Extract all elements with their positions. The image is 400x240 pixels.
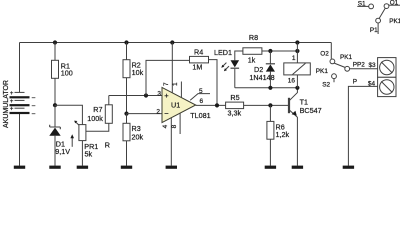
contact O2	[320, 51, 335, 64]
pin 1 stub	[172, 82, 181, 98]
contact arm O2-PP2	[334, 63, 345, 67]
svg-text:R: R	[105, 140, 110, 149]
contact S1	[357, 1, 373, 9]
contact PP2	[345, 62, 378, 72]
contact S2	[322, 74, 336, 89]
svg-text:–: –	[32, 111, 36, 117]
svg-text:PK1: PK1	[340, 54, 353, 61]
ground R3	[121, 166, 132, 169]
node R8/D2	[268, 49, 272, 53]
svg-text:1N4148: 1N4148	[249, 73, 274, 82]
node D2/collector net	[268, 86, 272, 90]
svg-text:100k: 100k	[87, 114, 103, 123]
wire pin3 net	[109, 95, 162, 97]
wire R8 to relay column	[262, 50, 298, 52]
svg-text:R5: R5	[230, 93, 239, 102]
svg-text:R7: R7	[93, 105, 102, 114]
resistor R4 1M	[190, 48, 209, 72]
svg-text:3: 3	[157, 90, 161, 97]
ground P	[343, 166, 354, 169]
pin 5 stub	[190, 88, 210, 100]
wire P to terminal and ground	[348, 79, 377, 166]
annotation arrow R up	[70, 134, 110, 149]
contact O1	[384, 0, 400, 9]
wire top rail	[20, 42, 332, 44]
pin 7 supply	[163, 43, 172, 93]
svg-text:+: +	[10, 99, 14, 105]
ground D1	[49, 166, 60, 169]
svg-text:+: +	[10, 107, 14, 113]
node rail/R2	[124, 40, 128, 44]
svg-text:1k: 1k	[248, 55, 256, 64]
svg-text:PK1: PK1	[316, 68, 329, 75]
ground battery	[14, 166, 25, 169]
node R2/R3/pin2	[124, 112, 128, 116]
svg-text:$3: $3	[369, 62, 377, 69]
resistor R3 20k	[123, 114, 143, 166]
svg-text:16: 16	[288, 78, 296, 85]
node base/R6	[268, 103, 272, 107]
svg-text:+: +	[10, 91, 14, 97]
svg-text:7: 7	[163, 82, 170, 86]
svg-text:$4: $4	[368, 81, 376, 88]
resistor R5 3,3k	[226, 93, 244, 117]
contact P1 with arm	[370, 8, 385, 34]
svg-text:R4: R4	[194, 48, 203, 57]
wire R4 to output	[209, 60, 218, 106]
resistor R7 100k	[87, 96, 112, 124]
svg-text:9,1V: 9,1V	[55, 147, 70, 156]
battery B1	[10, 43, 36, 166]
wire pin2 net	[127, 113, 163, 115]
svg-text:5k: 5k	[85, 149, 93, 158]
svg-text:5: 5	[199, 88, 203, 95]
relay coil PK1	[284, 43, 311, 88]
svg-text:S2: S2	[322, 81, 330, 88]
wire collector net	[235, 87, 298, 89]
wire rail to O2	[330, 43, 332, 59]
ground PR1	[77, 166, 88, 169]
svg-text:BC547: BC547	[300, 106, 322, 115]
wire output net	[196, 104, 226, 106]
terminal block screw 3	[378, 58, 396, 78]
svg-text:+: +	[164, 91, 169, 100]
svg-text:PP2: PP2	[353, 62, 366, 69]
wire LED cathode down	[234, 69, 236, 88]
node rail/R1	[53, 40, 57, 44]
svg-text:O1: O1	[390, 0, 399, 7]
zener diode D1	[49, 105, 70, 166]
svg-text:–: –	[32, 104, 36, 110]
ground R6	[265, 166, 276, 169]
svg-text:100: 100	[61, 68, 73, 77]
node output/R4	[215, 103, 219, 107]
svg-text:O2: O2	[320, 51, 329, 58]
node rail/relay	[295, 40, 299, 44]
svg-text:−: −	[164, 109, 169, 118]
svg-text:P: P	[353, 79, 357, 86]
svg-text:20k: 20k	[132, 133, 144, 142]
svg-text:6: 6	[200, 98, 204, 105]
wire base net	[244, 104, 289, 106]
wire PR1 wiper to R7	[86, 123, 109, 131]
svg-text:S1: S1	[358, 1, 366, 8]
potentiometer PR1 5k	[74, 121, 98, 166]
LED LED1	[214, 48, 239, 71]
op-amp U1 TL081	[162, 87, 211, 122]
svg-text:TL081: TL081	[190, 111, 210, 120]
terminal block screw 4	[378, 77, 396, 96]
ground pin4	[166, 166, 177, 169]
transistor T1 BC547	[289, 88, 322, 166]
node rail/pin7	[170, 40, 174, 44]
wire feedback riser	[146, 60, 190, 95]
svg-text:PK1: PK1	[389, 18, 400, 25]
resistor R6 1,2k	[267, 105, 290, 165]
pin 8 stub	[171, 113, 180, 134]
ground T1 emitter	[292, 166, 303, 169]
node pin3/R4	[144, 93, 148, 97]
svg-text:P1: P1	[370, 27, 378, 34]
svg-text:1: 1	[292, 55, 296, 62]
resistor R1	[52, 43, 73, 106]
svg-text:U1: U1	[171, 101, 180, 110]
svg-text:8: 8	[171, 124, 178, 128]
node R1/D1/PR1	[53, 103, 57, 107]
svg-text:R8: R8	[249, 33, 258, 42]
svg-text:2: 2	[156, 108, 160, 115]
wire LED anode from R8	[235, 51, 243, 60]
svg-text:10k: 10k	[132, 68, 144, 77]
svg-text:1,2k: 1,2k	[276, 130, 290, 139]
resistor R8 1k	[243, 33, 262, 64]
node relay/collector	[295, 86, 299, 90]
wire node to PR1	[55, 105, 82, 124]
pin 4 supply	[162, 118, 171, 166]
svg-text:–: –	[32, 96, 36, 102]
svg-text:LED1: LED1	[214, 48, 232, 57]
resistor R2 10k	[123, 43, 144, 114]
svg-text:1M: 1M	[192, 62, 202, 71]
svg-text:R3: R3	[132, 124, 141, 133]
svg-text:4: 4	[162, 124, 169, 128]
svg-text:3,3k: 3,3k	[228, 109, 242, 118]
node relay top wire	[295, 49, 299, 53]
svg-text:1: 1	[172, 82, 179, 86]
diode D2 1N4148	[249, 51, 275, 88]
